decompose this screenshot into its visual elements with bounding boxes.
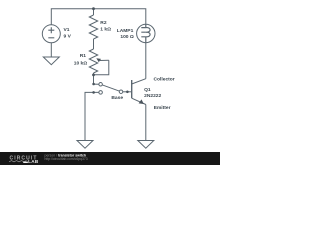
wiper arrow R1 (96, 58, 109, 62)
wire top rail (51, 9, 146, 25)
node R1 wiper junction (92, 74, 95, 77)
svg-text:Base: Base (111, 95, 123, 101)
ground (emitter) (138, 141, 154, 149)
lamp LAMP1 (137, 24, 155, 42)
wire R2-R1 (93, 39, 95, 49)
watermark bar (0, 152, 220, 165)
switch lever (101, 84, 121, 91)
node base (126, 91, 129, 94)
switch throw lower contact (99, 91, 103, 95)
resistor R1 (potentiometer) (89, 49, 97, 73)
voltage source V1 (42, 25, 60, 43)
wire R1 bottom to switch (93, 73, 95, 84)
svg-text:Q1: Q1 (144, 87, 151, 93)
switch throw upper contact (99, 83, 103, 87)
wire R2 top drop (93, 9, 95, 15)
wire collector (145, 43, 147, 79)
svg-text:Collector: Collector (154, 77, 175, 83)
wire lower throw to left (85, 92, 99, 140)
svg-text:R2: R2 (100, 20, 107, 26)
svg-text:1 kΩ: 1 kΩ (100, 26, 111, 32)
svg-text:R1: R1 (80, 53, 87, 59)
svg-text:2N2222: 2N2222 (144, 93, 161, 99)
svg-text:Emitter: Emitter (154, 105, 171, 111)
wire base (123, 91, 132, 93)
svg-text:9 V: 9 V (64, 34, 72, 40)
resistor R2 (89, 15, 97, 39)
labels (64, 20, 175, 111)
ground (switch) (77, 141, 93, 149)
node junction top rail (92, 7, 95, 10)
wire wiper loop (94, 60, 109, 75)
wire V1 bottom (50, 43, 52, 57)
svg-text:10 kΩ: 10 kΩ (74, 60, 88, 66)
ground (V1) (43, 57, 59, 65)
svg-text:100 Ω: 100 Ω (120, 34, 134, 40)
svg-text:V1: V1 (64, 27, 70, 33)
svg-text:http://circuitlab.com/c6pq373: http://circuitlab.com/c6pq373 (45, 157, 88, 161)
svg-text:▬LAB: ▬LAB (23, 159, 39, 164)
svg-text:LAMP1: LAMP1 (117, 28, 134, 34)
switch common contact (119, 90, 123, 94)
switch SW1 throw feed upper (94, 83, 99, 85)
wire emitter (145, 105, 147, 141)
transistor Q1 (132, 79, 146, 105)
